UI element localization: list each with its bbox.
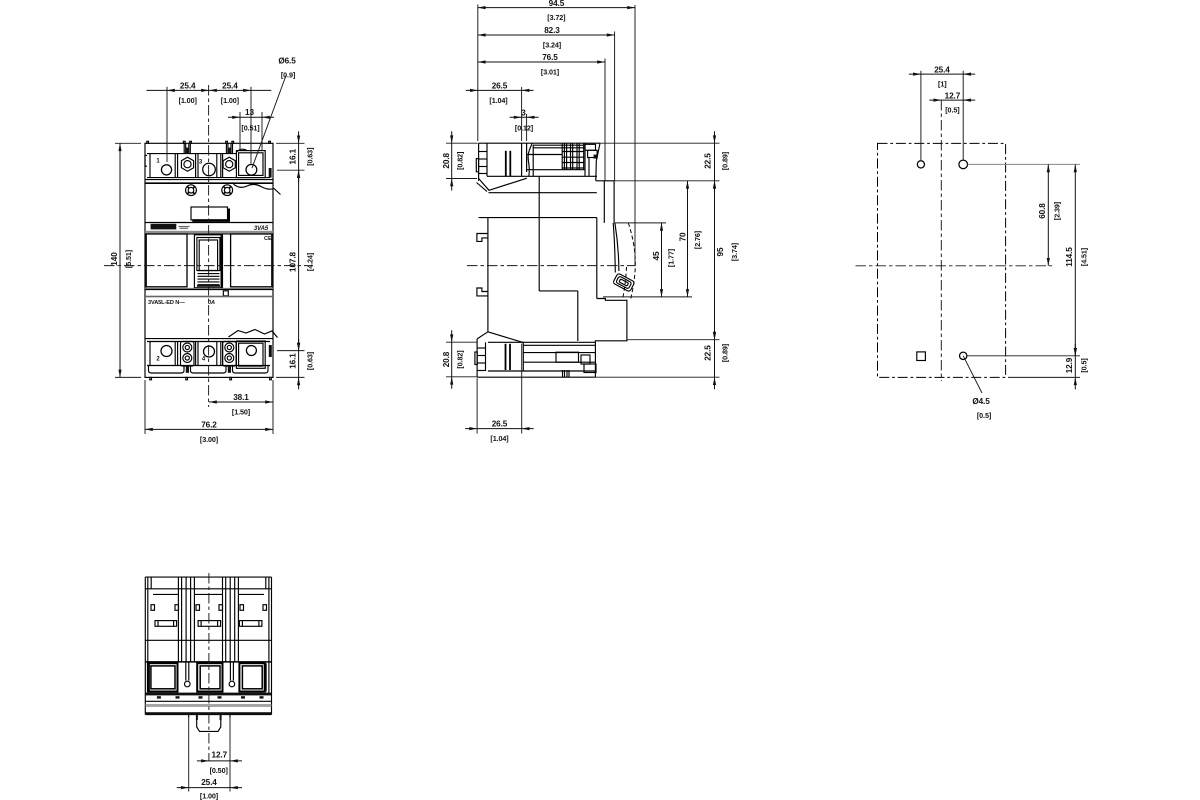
svg-text:[1]: [1]: [938, 80, 946, 89]
svg-text:[1.50]: [1.50]: [232, 408, 250, 417]
svg-text:[1.00]: [1.00]: [221, 96, 239, 105]
svg-text:[0.89]: [0.89]: [721, 344, 730, 362]
svg-text:3: 3: [521, 109, 526, 118]
svg-text:CE: CE: [264, 236, 272, 242]
svg-text:95: 95: [716, 247, 725, 256]
svg-text:45: 45: [652, 251, 661, 260]
svg-text:[2.39]: [2.39]: [1053, 202, 1062, 220]
svg-text:[0.89]: [0.89]: [721, 152, 730, 170]
svg-text:25.4: 25.4: [180, 82, 196, 91]
svg-text:[3.24]: [3.24]: [543, 41, 561, 50]
svg-text:76.2: 76.2: [201, 421, 217, 430]
svg-text:[1.00]: [1.00]: [200, 792, 218, 800]
svg-text:[3.00]: [3.00]: [200, 435, 218, 444]
svg-text:[0.63]: [0.63]: [305, 352, 314, 370]
svg-text:70: 70: [679, 232, 688, 241]
svg-text:[3.01]: [3.01]: [541, 68, 559, 77]
svg-text:94.5: 94.5: [549, 0, 565, 8]
svg-text:Ø4.5: Ø4.5: [972, 397, 990, 406]
svg-text:16.1: 16.1: [289, 353, 298, 369]
svg-text:[0.9]: [0.9]: [281, 71, 295, 80]
svg-text:25.4: 25.4: [934, 65, 950, 74]
svg-text:[4.51]: [4.51]: [1079, 248, 1088, 266]
svg-text:12.9: 12.9: [1065, 357, 1074, 373]
svg-text:[0.63]: [0.63]: [305, 148, 314, 166]
svg-text:16.1: 16.1: [289, 148, 298, 164]
svg-text:Ø6.5: Ø6.5: [278, 57, 296, 66]
svg-text:[0.51]: [0.51]: [241, 123, 259, 132]
svg-text:82.3: 82.3: [544, 26, 560, 35]
svg-text:[0.82]: [0.82]: [456, 350, 465, 368]
svg-text:26.5: 26.5: [492, 419, 508, 428]
svg-text:[2.76]: [2.76]: [693, 231, 702, 249]
svg-text:[0.50]: [0.50]: [210, 766, 228, 775]
svg-text:[0.5]: [0.5]: [977, 411, 991, 420]
svg-text:76.5: 76.5: [542, 53, 558, 62]
svg-text:22.5: 22.5: [704, 153, 713, 169]
svg-text:[0.82]: [0.82]: [456, 152, 465, 170]
svg-text:25.4: 25.4: [222, 82, 238, 91]
svg-text:20.8: 20.8: [442, 351, 451, 367]
svg-text:[1.04]: [1.04]: [490, 434, 508, 443]
svg-text:22.5: 22.5: [704, 345, 713, 361]
svg-text:[3.74]: [3.74]: [730, 243, 739, 261]
svg-text:[4.24]: [4.24]: [305, 253, 314, 271]
svg-text:20.8: 20.8: [442, 152, 451, 168]
svg-text:[0.5]: [0.5]: [1079, 358, 1088, 372]
svg-text:25.4: 25.4: [201, 778, 217, 787]
svg-text:3VA5L-ED N—: 3VA5L-ED N—: [148, 300, 185, 306]
svg-text:140: 140: [110, 252, 119, 266]
svg-text:12.7: 12.7: [945, 91, 961, 100]
svg-text:[0.5]: [0.5]: [945, 105, 959, 114]
svg-text:[1.04]: [1.04]: [489, 96, 507, 105]
svg-text:[0.12]: [0.12]: [515, 124, 533, 133]
svg-text:13: 13: [245, 108, 254, 117]
svg-text:107.8: 107.8: [289, 251, 298, 272]
svg-text:60.8: 60.8: [1038, 203, 1047, 219]
svg-text:3VA5: 3VA5: [254, 226, 269, 232]
svg-text:[1.77]: [1.77]: [667, 249, 676, 267]
svg-text:[3.72]: [3.72]: [547, 13, 565, 22]
svg-text:[1.00]: [1.00]: [179, 96, 197, 105]
svg-text:12.7: 12.7: [212, 751, 228, 760]
svg-text:38.1: 38.1: [233, 393, 249, 402]
svg-text:114.5: 114.5: [1065, 247, 1074, 267]
svg-text:26.5: 26.5: [492, 82, 508, 91]
